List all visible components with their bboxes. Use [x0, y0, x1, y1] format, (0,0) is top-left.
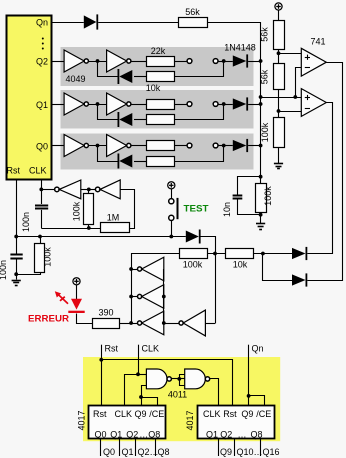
- wire oscillator bottom rail: [41, 228, 100, 230]
- svg-text:Q2…: Q2…: [138, 447, 159, 457]
- wire feedback diode to resistor row 1: [134, 76, 146, 78]
- svg-text:390: 390: [98, 308, 113, 318]
- node buffer output junction 2: [129, 295, 133, 299]
- wire U5a lower input to Q9 junction: [142, 386, 147, 398]
- label 4011: [168, 390, 187, 400]
- net stub Qn: [249, 344, 264, 406]
- open terminal (link) left row 1: [187, 59, 192, 64]
- diode 1N4148 row 1: [224, 43, 256, 68]
- wire CLK node to inverter output: [41, 189, 54, 191]
- wire 56k to detection bus: [207, 22, 261, 24]
- svg-text:56k: 56k: [185, 7, 200, 17]
- inverter oscillator U4b: [95, 180, 120, 199]
- wire +V to LED: [76, 285, 78, 299]
- capacitor 100n (Rst): [0, 255, 23, 281]
- wire Qn from U1 to diode: [51, 22, 84, 24]
- resistor feedback row 3: [147, 157, 175, 167]
- svg-text:741: 741: [311, 37, 326, 47]
- wire inverter stage1 to stage2 row 1: [88, 61, 106, 63]
- IC 4017 right block: [198, 406, 275, 440]
- label output pins Q0 Q1 Q2 Q8: [103, 447, 170, 457]
- wire bus to buffer 3: [131, 323, 137, 325]
- node bus junction row 2: [259, 102, 263, 106]
- node Qn branch junction: [247, 394, 251, 398]
- pin tick Q8: [155, 439, 157, 456]
- wire junction up to U3a - input: [296, 68, 302, 98]
- pin tick Q16: [260, 439, 262, 456]
- pin tick Q1: [119, 439, 121, 456]
- svg-text:Q2: Q2: [220, 430, 232, 440]
- wire feedback diode to resistor row 2: [134, 119, 146, 121]
- wire junction to left 4017 Q9 pin: [141, 397, 143, 406]
- svg-text:Q9: Q9: [220, 447, 232, 457]
- svg-text:56k: 56k: [260, 69, 270, 84]
- wire link to diode row 3: [218, 145, 233, 147]
- wire switch to main line: [171, 221, 173, 237]
- wire driver input: [205, 323, 215, 325]
- wire upper diode to U3b output bus: [307, 253, 333, 255]
- diode D-Qn: [84, 14, 98, 29]
- wire 56k to node A: [278, 49, 280, 64]
- wire feedback resistor back to node row 2: [175, 105, 224, 120]
- svg-text:Q1: Q1: [110, 430, 122, 440]
- wire U5b lower input: [180, 379, 185, 386]
- wire 100k to ground: [278, 148, 280, 164]
- IC 4017 left block: [89, 406, 166, 440]
- diode feedback row 2: [118, 112, 133, 127]
- wire U4b input loop: [121, 190, 135, 229]
- svg-text:Qn: Qn: [36, 17, 48, 27]
- open terminal (link) right row 3: [213, 143, 218, 148]
- diode feedback row 1: [118, 69, 133, 84]
- wire bus to buffer 2: [131, 296, 137, 298]
- diode 1N4148 row 3: [233, 139, 248, 152]
- power +V symbol (divider top): [275, 3, 282, 10]
- resistor series row 2: [147, 100, 175, 110]
- inverter (4049) second stage row 1: [107, 50, 131, 72]
- resistor 100k oscillator (vertical): [71, 189, 93, 228]
- label TEST: [184, 203, 209, 214]
- wire diode to bus row 3: [248, 145, 261, 147]
- node CLK branch junction: [136, 372, 140, 376]
- wire feedback down from stage1 node row 3: [98, 146, 119, 162]
- wire 56k to node B: [278, 90, 280, 118]
- wire 10n cap to bottom node: [238, 200, 261, 215]
- svg-text:1N4148: 1N4148: [224, 43, 256, 53]
- resistor 100k detection (vertical): [256, 177, 274, 224]
- svg-text:100k: 100k: [260, 122, 270, 142]
- wire Rst from U1 down: [16, 179, 18, 254]
- 4049 hex-inverter gray background row 3: [61, 134, 254, 170]
- counter IC U1 (yellow block) with pins Qn Q2 Q1 Q0 Rst CLK: [7, 16, 52, 180]
- wire stage2 to series resistor row 2: [131, 104, 146, 106]
- wire U3a output down right side: [310, 63, 343, 281]
- wire junction to left 4017 /CE pin: [142, 398, 158, 406]
- net stub CLK: [139, 344, 160, 375]
- wire LED cathode to 390: [77, 314, 93, 324]
- inverter U2a (4049) first stage row 1: [64, 50, 88, 72]
- node op1- op2+ junction: [293, 95, 297, 99]
- wire Qn branch to /CE pin: [249, 396, 265, 406]
- svg-text:CLK: CLK: [142, 344, 160, 354]
- capacitor 100n (CLK): [21, 206, 48, 233]
- wire CLK to left 4017 CLK pin: [125, 375, 139, 406]
- wire feedback resistor back to node row 3: [175, 146, 224, 162]
- LED ERREUR (red): [68, 299, 84, 313]
- label 4017 right (rotated): [185, 410, 195, 430]
- svg-text:4049: 4049: [66, 74, 86, 84]
- svg-text:Q9: Q9: [241, 409, 253, 419]
- svg-text:Q0: Q0: [95, 430, 107, 440]
- svg-text:CLK: CLK: [203, 409, 221, 419]
- wire CLK to NAND U5a input: [138, 374, 146, 376]
- wire bus tap to comparator inputs: [261, 97, 302, 99]
- LED flash arrow (red): [55, 291, 68, 304]
- inverter buffer U2 stage 3 (parallel): [138, 311, 164, 335]
- resistor 22k row 1: [147, 46, 175, 67]
- resistor 10k row 1: [146, 72, 175, 94]
- open terminal (link) left row 3: [187, 143, 192, 148]
- switch TEST contact upper: [169, 199, 174, 204]
- diode main line: [186, 230, 201, 244]
- wire feedback down from stage1 node row 1: [98, 62, 119, 77]
- wire +V to 56k: [278, 10, 280, 20]
- svg-text:/CE: /CE: [149, 409, 164, 419]
- svg-text:ERREUR: ERREUR: [28, 314, 69, 325]
- node output diode junction: [261, 252, 265, 256]
- wire stage2 to series resistor row 1: [131, 61, 146, 63]
- label output pins Q9 Q10 Q16: [220, 447, 280, 457]
- svg-text:Q1: Q1: [206, 430, 218, 440]
- resistor 100k (Rst vertical): [35, 237, 53, 273]
- ground (divider): [274, 164, 283, 169]
- resistor 390: [93, 308, 120, 329]
- wire U5b output to right 4017 CLK: [210, 379, 219, 406]
- power +V symbol (TEST): [168, 182, 175, 189]
- svg-text:…: …: [238, 430, 247, 440]
- svg-text:Q0: Q0: [36, 142, 48, 152]
- inverter oscillator U4a: [55, 180, 81, 199]
- wire lower diode to U3a output bus: [307, 280, 342, 282]
- svg-text:100k: 100k: [183, 260, 203, 270]
- wire resistor to open terminal row 2: [174, 104, 187, 106]
- resistor 100k (horizontal): [180, 249, 208, 270]
- node junction after stage1 row 1: [96, 59, 100, 63]
- svg-text:Q1: Q1: [122, 447, 134, 457]
- wire node A to op-amp U3a + input: [279, 53, 302, 55]
- pin tick Q2: [135, 439, 137, 456]
- svg-text:10k: 10k: [233, 260, 248, 270]
- wire CLK from U1 down: [41, 179, 43, 204]
- svg-text:Rst: Rst: [105, 344, 119, 354]
- wire inverter stage1 to stage2 row 2: [88, 104, 106, 106]
- switch TEST actuator bar: [177, 198, 179, 219]
- svg-text:Qn: Qn: [252, 344, 264, 354]
- node bus junction row 1: [259, 59, 263, 63]
- wire Q2 from U1 to inverter: [51, 61, 64, 63]
- wire Q0 from U1 to inverter: [51, 145, 64, 147]
- wire resistor to open terminal row 3: [174, 145, 187, 147]
- inverter driver U2f: [179, 310, 205, 336]
- inverter (4049) second stage row 3: [107, 135, 131, 157]
- svg-text:Q10…: Q10…: [237, 447, 263, 457]
- inverter U2c (4049) first stage row 3: [64, 135, 88, 157]
- wire diode to bus row 1: [248, 61, 261, 63]
- svg-text:10k: 10k: [146, 83, 161, 93]
- node buffer output junction 1: [129, 267, 133, 271]
- 4049 hex-inverter gray background row 2: [61, 90, 254, 129]
- open terminal (link) right row 2: [213, 102, 218, 107]
- switch TEST contact lower: [169, 215, 174, 220]
- svg-text:1M: 1M: [107, 213, 120, 223]
- pin tick Q9: [218, 439, 220, 456]
- svg-text:Q0: Q0: [103, 447, 115, 457]
- svg-text:22k: 22k: [151, 46, 166, 56]
- svg-text:Q2: Q2: [126, 430, 138, 440]
- wire Rst branch to right 4017: [102, 360, 233, 406]
- node Rst ground junction: [14, 272, 18, 276]
- node buffer output junction 3: [129, 321, 133, 325]
- node buffer input junction mid: [162, 295, 166, 299]
- op-amp U3b 741 (lower comparator): [301, 89, 326, 117]
- inverter buffer U2 stage 2 (parallel): [138, 285, 164, 309]
- inverter buffer U2 stage 1 (parallel): [138, 257, 164, 281]
- resistor 56k upper (vertical): [260, 21, 285, 50]
- wire Q1 from U1 to inverter: [51, 104, 64, 106]
- diode feedback row 3: [118, 154, 133, 169]
- svg-text:Q16: Q16: [263, 447, 280, 457]
- wire diode to oscillator node: [201, 237, 216, 324]
- svg-text:Rst: Rst: [223, 409, 237, 419]
- wire feedback down from stage1 node row 2: [98, 105, 119, 120]
- op-amp U3a 741 (upper comparator): [301, 37, 326, 77]
- resistor series row 3: [147, 141, 175, 151]
- capacitor 10n: [222, 196, 243, 218]
- label ERREUR: [28, 314, 69, 325]
- open terminal (link) left row 2: [187, 102, 192, 107]
- wire detection bus vertical: [260, 22, 262, 177]
- wire buffer input bus: [163, 269, 165, 323]
- ground (Rst column): [12, 281, 21, 286]
- svg-text:/CE: /CE: [256, 409, 271, 419]
- wire inverter bus top rail: [132, 254, 180, 324]
- nand gate U5a 4011: [146, 369, 171, 389]
- wire link to diode row 1: [218, 61, 233, 63]
- resistor 10k (horizontal): [226, 249, 254, 270]
- label 4049: [66, 74, 86, 84]
- power +V symbol (LED): [73, 278, 80, 285]
- wire inverter bus to 100k: [131, 253, 179, 255]
- wire U5b upper input: [180, 375, 185, 379]
- resistor 100k divider (vertical): [260, 118, 285, 148]
- wire feedback diode to resistor row 3: [134, 161, 146, 163]
- node bus tap junction: [259, 95, 263, 99]
- node bus junction row 3: [259, 144, 263, 148]
- node junction after stage1 row 3: [96, 144, 100, 148]
- wire between oscillator inverters: [81, 189, 96, 191]
- svg-text:4017: 4017: [76, 410, 86, 430]
- wire U5a output to U5b: [171, 378, 184, 380]
- wire resistor to open terminal row 1: [174, 61, 187, 63]
- wire 100k to 10k: [207, 253, 225, 255]
- wire U3b output down right side: [310, 103, 333, 254]
- wire 10k to output diodes: [253, 253, 292, 255]
- node oscillator rail junction: [87, 226, 91, 230]
- wire bus to buffer 1: [131, 269, 137, 271]
- node detection RC bottom junction: [259, 213, 263, 217]
- diode output lower: [292, 273, 307, 286]
- wire 100n cap to rail: [41, 210, 43, 228]
- svg-text:4011: 4011: [168, 390, 187, 400]
- diode output upper: [292, 247, 307, 260]
- svg-text:100k: 100k: [71, 201, 81, 221]
- node Rst main line junction: [14, 235, 18, 239]
- wire 390 to buffer bus: [120, 323, 131, 325]
- node 100k top junction: [38, 235, 42, 239]
- svg-text:Q8: Q8: [158, 447, 170, 457]
- node detection RC top junction: [259, 175, 263, 179]
- svg-text:Q8: Q8: [251, 430, 263, 440]
- svg-text:Rst: Rst: [7, 166, 21, 176]
- wire diode to bus row 2: [248, 104, 261, 106]
- node CLK oscillator junction: [39, 188, 43, 192]
- wire main line from Rst column to diode: [16, 236, 186, 238]
- node B divider junction: [277, 109, 281, 113]
- node buffer input junction bottom: [162, 321, 166, 325]
- node feedback junction row 2: [222, 102, 226, 106]
- ground (detection RC): [256, 224, 265, 230]
- resistor 56k lower (vertical): [260, 64, 285, 90]
- wire diode to R 56k: [98, 22, 178, 24]
- wire stage2 to series resistor row 3: [131, 145, 146, 147]
- node junction after stage1 row 2: [96, 102, 100, 106]
- svg-text:10n: 10n: [222, 202, 232, 217]
- wire feedback resistor back to node row 1: [175, 62, 224, 77]
- yellow background (substitution block): [83, 357, 280, 441]
- svg-text:100n: 100n: [21, 212, 31, 232]
- wire link to diode row 2: [218, 104, 233, 106]
- svg-text:CLK: CLK: [29, 166, 47, 176]
- nand gate U5b 4011: [185, 369, 210, 389]
- inverter (4049) second stage row 2: [107, 93, 131, 115]
- wire ground node to 100k bottom: [17, 272, 41, 275]
- open terminal (link) right row 1: [213, 59, 218, 64]
- svg-text:TEST: TEST: [184, 203, 209, 214]
- resistor 1M (horizontal): [101, 213, 130, 233]
- resistor 56k (horizontal top): [179, 7, 208, 28]
- node oscillator mid junction: [87, 188, 91, 192]
- wire 100n to ground node: [16, 259, 18, 279]
- pin tick Q10: [234, 439, 236, 456]
- node feedback junction row 3: [222, 144, 226, 148]
- svg-text:Q9: Q9: [135, 409, 147, 419]
- inverter U2b (4049) first stage row 2: [64, 93, 88, 115]
- node Q9 /CE junction left: [139, 395, 143, 399]
- label 4017 left (rotated): [76, 410, 86, 430]
- svg-text:100k: 100k: [263, 186, 273, 206]
- svg-text:56k: 56k: [260, 27, 270, 42]
- wire input bus to driver inverter: [164, 323, 179, 325]
- wire inverter stage1 to stage2 row 3: [88, 145, 106, 147]
- net stub Rst: [102, 344, 119, 406]
- wire node B to op-amp U3b - input: [279, 111, 302, 113]
- diode 1N4148 row 2: [233, 97, 248, 110]
- wire junction down to lower diode: [263, 254, 293, 281]
- svg-text:100k: 100k: [43, 247, 53, 267]
- node A divider junction: [277, 51, 281, 55]
- node TEST junction: [169, 235, 173, 239]
- svg-text:Q1: Q1: [36, 100, 48, 110]
- svg-text:Rst: Rst: [93, 409, 107, 419]
- resistor feedback row 2: [147, 115, 175, 125]
- node U5b input junction: [177, 377, 181, 381]
- node Rst branch junction: [99, 358, 103, 362]
- svg-text:4017: 4017: [185, 410, 195, 430]
- pin tick Q0: [100, 439, 102, 456]
- node resistor row junction: [213, 252, 217, 256]
- node feedback junction row 1: [222, 59, 226, 63]
- svg-text:100n: 100n: [0, 260, 8, 280]
- 4049 hex-inverter gray background row 1: [61, 47, 254, 86]
- wire +V to switch contact: [171, 189, 173, 199]
- svg-text:Q2: Q2: [36, 56, 48, 66]
- svg-text:CLK: CLK: [115, 409, 133, 419]
- svg-text:…Q8: …Q8: [139, 430, 160, 440]
- wire bus node to 10n cap: [238, 177, 261, 195]
